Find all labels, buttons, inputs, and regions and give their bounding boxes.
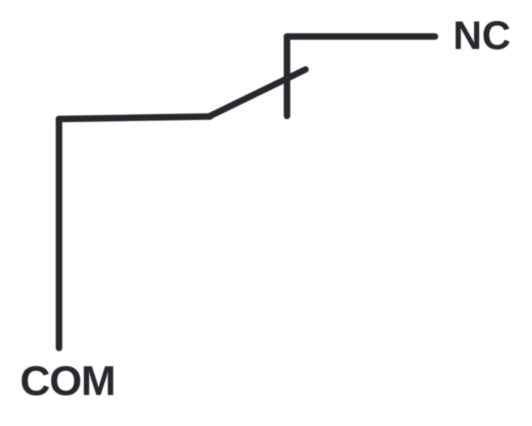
fixed contact bar (NC stationary contact) [284,37,291,117]
svg-text:COM: COM [20,357,115,404]
wire COM horizontal [59,117,210,120]
svg-text:NC: NC [453,14,511,58]
switch SW1 moving contact (closed onto NC bar) [209,70,306,117]
wire NC terminal (horizontal, to node NC) [287,33,435,40]
wire COM vertical (to node COM) [56,119,63,348]
